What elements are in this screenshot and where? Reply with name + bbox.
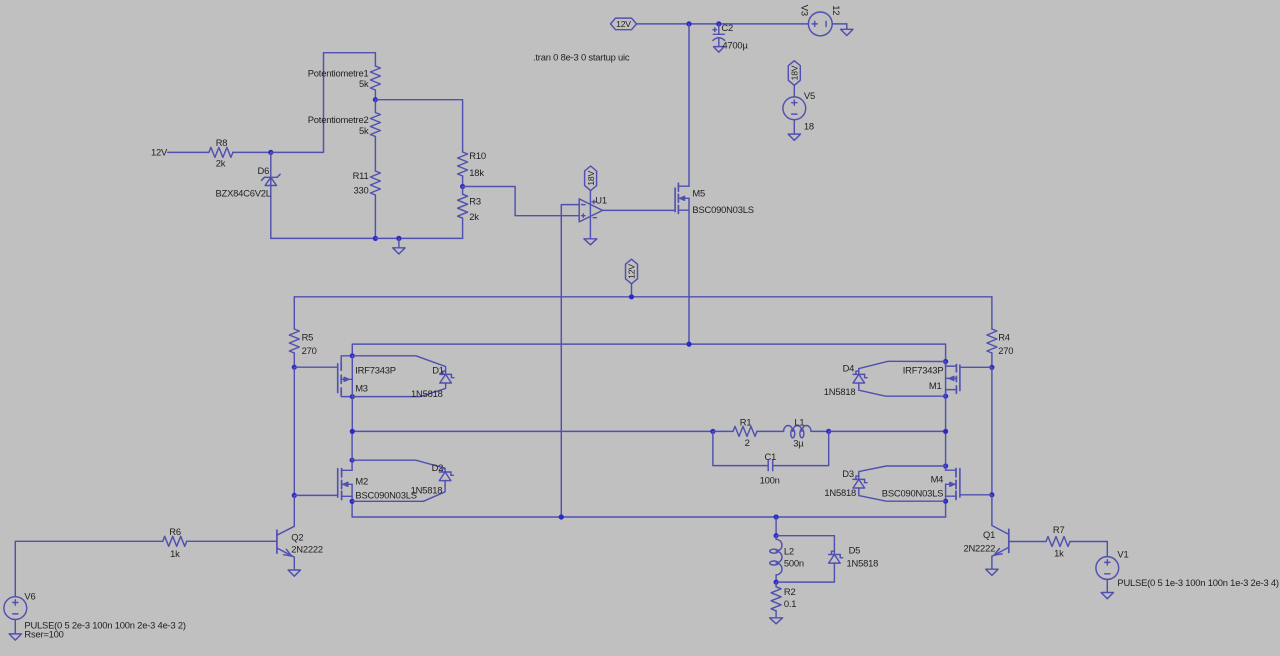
junction L2 top xyxy=(774,533,779,538)
wire left rail to Q2 collector xyxy=(293,495,295,525)
junction ground stub xyxy=(396,236,401,241)
svg-text:U1: U1 xyxy=(595,194,607,205)
wire 18V flag to U1 and down to ground xyxy=(589,191,591,239)
op-amp U1 xyxy=(579,194,607,222)
junction M3 source xyxy=(350,353,355,358)
svg-text:Potentiometre1: Potentiometre1 xyxy=(308,67,369,78)
wire R8 to node A xyxy=(233,151,271,153)
junction M4 drain xyxy=(943,463,948,468)
ground (V5) xyxy=(788,120,800,141)
voltage source V6 xyxy=(4,590,36,619)
svg-text:D5: D5 xyxy=(849,545,861,556)
pmos M1 xyxy=(903,362,960,397)
svg-text:R4: R4 xyxy=(998,332,1010,343)
inductor L2 xyxy=(770,536,804,582)
svg-text:2N2222: 2N2222 xyxy=(291,544,323,555)
svg-text:M1: M1 xyxy=(929,380,942,391)
resistor R6 xyxy=(163,526,276,559)
svg-text:R7: R7 xyxy=(1053,524,1065,535)
svg-text:IRF7343P: IRF7343P xyxy=(355,364,396,375)
schottky diode D5 xyxy=(829,545,879,569)
ground (U1) xyxy=(584,239,597,245)
wire R7 to V1 xyxy=(1106,542,1108,557)
voltage source V3 xyxy=(800,5,843,36)
wire pot junction to R10 column xyxy=(375,100,462,152)
wire M2 source rail xyxy=(351,484,353,517)
svg-text:R1: R1 xyxy=(740,417,752,428)
svg-text:2: 2 xyxy=(745,437,750,448)
svg-text:L1: L1 xyxy=(794,417,804,428)
ground bus wire (divider) xyxy=(375,237,462,239)
junction M3 drain xyxy=(350,394,355,399)
resistor R8 xyxy=(209,137,233,168)
net label 12V (left) xyxy=(151,147,168,158)
svg-text:M5: M5 xyxy=(692,187,705,198)
inductor L1 xyxy=(784,417,829,449)
wire M2 gate xyxy=(294,494,337,496)
resistor R7 xyxy=(1046,524,1107,558)
svg-text:M4: M4 xyxy=(931,474,944,485)
svg-text:Rser=100: Rser=100 xyxy=(24,628,63,639)
junction R5 / M3 gate xyxy=(292,365,297,370)
svg-text:12V: 12V xyxy=(616,19,631,29)
svg-text:2k: 2k xyxy=(469,211,479,222)
svg-text:R10: R10 xyxy=(469,150,486,161)
svg-text:18: 18 xyxy=(804,121,814,132)
svg-text:D2: D2 xyxy=(432,462,444,473)
junction M2 drain xyxy=(350,458,355,463)
svg-text:Q2: Q2 xyxy=(291,531,303,542)
wire output node to R1 xyxy=(352,430,713,432)
svg-text:100n: 100n xyxy=(760,474,780,485)
capacitor C2 (polarized) xyxy=(713,22,749,52)
resistor R10 xyxy=(458,150,486,186)
wire V3 to ground xyxy=(832,23,847,25)
wire M4 source rail xyxy=(945,484,947,517)
wire 18V flag to V5 xyxy=(793,85,795,97)
svg-text:BZX84C6V2L: BZX84C6V2L xyxy=(216,188,271,199)
voltage source V5 xyxy=(783,90,815,131)
svg-text:PULSE(0 5 1e-3 100n 100n 1e-3: PULSE(0 5 1e-3 100n 100n 1e-3 2e-3 4) xyxy=(1117,577,1279,588)
wire right rail to M4 gate xyxy=(991,367,993,495)
ground (Q1) xyxy=(986,569,998,575)
junction R4 / M1 gate xyxy=(989,365,994,370)
wire R4 junction to M1 gate xyxy=(960,366,992,368)
svg-text:M3: M3 xyxy=(355,383,368,394)
svg-text:R2: R2 xyxy=(784,586,796,597)
svg-text:3µ: 3µ xyxy=(793,437,804,448)
wire M3 rail xyxy=(351,356,353,432)
svg-text:270: 270 xyxy=(302,345,317,356)
junction top rail / M5 drain xyxy=(686,21,691,26)
junction M4 gate xyxy=(989,492,994,497)
resistor R1 xyxy=(713,417,784,448)
wire M4 gate xyxy=(960,494,992,496)
wire node A up-right to potentiometers xyxy=(271,53,376,153)
svg-text:18k: 18k xyxy=(469,167,484,178)
ground (Q2) xyxy=(288,570,300,576)
wire Q1 base to R7 xyxy=(1009,541,1046,543)
svg-text:V5: V5 xyxy=(804,90,815,101)
voltage source V1 xyxy=(1096,549,1129,580)
diode D3 loop xyxy=(859,466,946,501)
svg-text:5k: 5k xyxy=(359,78,369,89)
junction M2 source xyxy=(350,499,355,504)
svg-text:D6: D6 xyxy=(258,165,270,176)
junction L2 branch on bus xyxy=(774,514,779,519)
schottky diode D4 xyxy=(824,362,867,397)
svg-text:2k: 2k xyxy=(216,158,226,169)
svg-text:.tran 0 8e-3 0 startup uic: .tran 0 8e-3 0 startup uic xyxy=(533,52,630,63)
V6 value text xyxy=(24,620,186,640)
wire M5 source to hbridge rail xyxy=(688,198,690,344)
spice directive .tran xyxy=(533,52,630,63)
wire noninverting input feedback xyxy=(561,205,579,517)
svg-text:2N2222: 2N2222 xyxy=(963,542,995,553)
svg-text:330: 330 xyxy=(353,185,368,196)
svg-text:12V: 12V xyxy=(627,264,637,279)
wire L1 to right rail xyxy=(829,430,946,432)
net flag 18V (V5) xyxy=(788,61,800,86)
wire right rail to Q1 collector xyxy=(991,495,993,526)
npn Q1 xyxy=(963,526,1008,570)
ground (divider) xyxy=(393,238,405,254)
ground (V1) xyxy=(1101,579,1113,598)
net flag 12V (top rail) xyxy=(611,18,637,30)
net flag 12V (mid bus) xyxy=(626,259,638,297)
junction 12V flag on bus xyxy=(629,294,634,299)
wire R5 junction to M3 gate xyxy=(294,366,337,368)
svg-text:5k: 5k xyxy=(359,125,369,136)
wire inverting input from divider xyxy=(463,187,580,216)
svg-text:M2: M2 xyxy=(355,476,368,487)
svg-text:12: 12 xyxy=(831,5,842,15)
junction top rail / C2 xyxy=(716,21,721,26)
svg-text:18V: 18V xyxy=(586,170,596,185)
wire top rail xyxy=(637,23,809,25)
diode D4 loop xyxy=(859,361,946,396)
wire M2 drain stub xyxy=(351,431,353,470)
svg-text:C1: C1 xyxy=(765,451,777,462)
wire bottom bus xyxy=(352,516,946,518)
junction M5 source on bus xyxy=(686,342,691,347)
nmos M5 xyxy=(675,183,754,215)
resistor R11 xyxy=(353,170,381,238)
junction R11 bottom xyxy=(373,236,378,241)
pmos M3 xyxy=(338,356,396,397)
svg-text:D4: D4 xyxy=(843,362,855,373)
svg-text:BSC090N03LS: BSC090N03LS xyxy=(882,488,943,499)
V1 value text xyxy=(1117,577,1279,588)
wire left rail R5 to M2 gate xyxy=(293,367,295,495)
resistor R4 xyxy=(987,297,1013,368)
wire D6 anode to ground bus xyxy=(271,237,376,239)
wire bus to L2 xyxy=(775,517,777,536)
junction R10/R3 xyxy=(460,184,465,189)
ground (V6) xyxy=(9,620,21,641)
junction output right rail xyxy=(943,429,948,434)
zener diode D6 xyxy=(216,152,281,238)
svg-text:R11: R11 xyxy=(353,170,369,181)
junction L1 right xyxy=(826,429,831,434)
svg-text:4700µ: 4700µ xyxy=(722,40,748,51)
svg-text:1N5818: 1N5818 xyxy=(411,485,443,496)
node A junction xyxy=(268,150,273,155)
junction M1 source xyxy=(943,359,948,364)
wire 12V mid bus xyxy=(294,296,992,298)
junction L2 bottom xyxy=(774,580,779,585)
junction R1 left xyxy=(710,429,715,434)
junction M1 drain xyxy=(943,394,948,399)
svg-text:1N5818: 1N5818 xyxy=(824,487,856,498)
svg-text:BSC090N03LS: BSC090N03LS xyxy=(355,489,416,500)
svg-text:1N5818: 1N5818 xyxy=(847,558,879,569)
svg-text:0.1: 0.1 xyxy=(784,598,796,609)
svg-text:12V: 12V xyxy=(151,147,168,158)
node pot junction xyxy=(373,97,378,102)
svg-text:1N5818: 1N5818 xyxy=(824,386,856,397)
diode D1 loop xyxy=(352,356,445,397)
wire M4 drain stub xyxy=(945,431,947,470)
wire V6 to R6 xyxy=(15,541,162,597)
svg-text:V3: V3 xyxy=(800,5,811,16)
junction M4 source xyxy=(943,499,948,504)
resistor R2 xyxy=(771,582,796,618)
svg-text:R8: R8 xyxy=(216,137,228,148)
nmos M4 xyxy=(882,469,960,500)
svg-text:Potentiometre2: Potentiometre2 xyxy=(308,114,369,125)
svg-text:1k: 1k xyxy=(1054,547,1064,558)
svg-text:V1: V1 xyxy=(1117,549,1128,560)
schottky diode D2 xyxy=(411,462,454,495)
wire high-side bus xyxy=(352,344,945,361)
capacitor C1 branch xyxy=(713,431,829,485)
svg-text:D3: D3 xyxy=(842,468,854,479)
wire M1 rail xyxy=(945,362,947,432)
diode D5 loop xyxy=(776,536,834,582)
svg-text:R6: R6 xyxy=(169,526,181,537)
svg-text:1N5818: 1N5818 xyxy=(411,388,443,399)
net flag 18V (U1) xyxy=(585,166,597,191)
svg-text:C2: C2 xyxy=(721,22,733,33)
svg-text:D1: D1 xyxy=(432,364,444,375)
junction output/RC xyxy=(350,429,355,434)
svg-text:R5: R5 xyxy=(302,332,314,343)
wire M5 drain to top rail xyxy=(688,24,690,186)
wire U1 output to M5 gate xyxy=(603,209,676,211)
resistor R5 xyxy=(289,297,316,367)
diode D2 loop xyxy=(352,460,445,501)
svg-text:500n: 500n xyxy=(784,558,804,569)
junction M2 gate xyxy=(292,493,297,498)
wire 12V label to R8 xyxy=(168,151,209,153)
svg-text:L2: L2 xyxy=(784,546,794,557)
ground (R2) xyxy=(770,618,783,624)
svg-text:1k: 1k xyxy=(170,548,180,559)
svg-text:Q1: Q1 xyxy=(983,529,995,540)
nmos M2 xyxy=(338,469,417,501)
npn Q2 xyxy=(277,525,323,570)
svg-text:IRF7343P: IRF7343P xyxy=(903,364,944,375)
svg-text:BSC090N03LS: BSC090N03LS xyxy=(692,204,753,215)
junction feedback on bus xyxy=(559,514,564,519)
resistor Potentiometre2 xyxy=(308,100,381,171)
svg-text:18V: 18V xyxy=(790,65,800,80)
svg-text:V6: V6 xyxy=(24,590,35,601)
resistor Potentiometre1 xyxy=(308,53,381,100)
ground (V3) xyxy=(841,24,853,36)
resistor R3 xyxy=(458,187,481,239)
schottky diode D3 xyxy=(824,468,867,498)
svg-text:270: 270 xyxy=(998,345,1013,356)
schottky diode D1 xyxy=(411,364,454,399)
svg-text:R3: R3 xyxy=(469,195,481,206)
